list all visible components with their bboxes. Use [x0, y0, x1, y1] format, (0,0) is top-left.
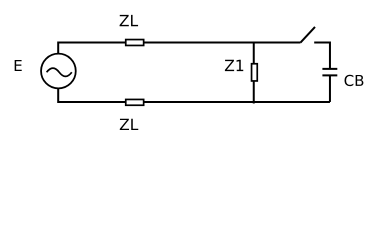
label ZL bottom — [120, 119, 138, 130]
label E — [15, 60, 22, 71]
wire switch contact and capacitor top lead — [314, 43, 330, 69]
source E circle — [41, 54, 76, 89]
resistor Z1 body — [252, 64, 258, 81]
source E sine wave — [47, 68, 72, 76]
capacitor CB plates — [322, 69, 337, 76]
wire top rail from source top to switch pivot — [58, 43, 300, 54]
wire bottom rail from source bottom to capacitor leg — [58, 88, 330, 102]
switch blade open — [301, 27, 316, 43]
label CB — [345, 75, 364, 86]
label Z1 — [225, 60, 243, 71]
label ZL top — [120, 15, 138, 26]
wire capacitor bottom lead — [329, 75, 331, 102]
resistor ZL top body — [126, 40, 144, 46]
wire Z1 branch vertical — [253, 43, 255, 104]
resistor ZL bottom body — [126, 99, 144, 105]
